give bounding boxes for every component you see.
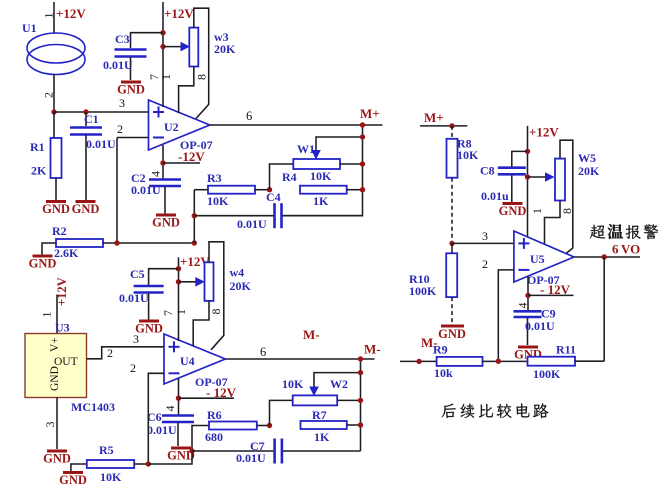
node M+ W1 right xyxy=(360,161,365,166)
node rail-wiper U4 xyxy=(176,279,181,284)
capacitor C7 xyxy=(192,450,274,452)
svg-text:10k: 10k xyxy=(434,366,453,380)
text over-temperature alarm xyxy=(590,225,605,239)
wire M+ vertical xyxy=(284,125,363,216)
capacitor C4 xyxy=(194,215,273,217)
voltage reference U3 MC1403 xyxy=(25,334,87,398)
svg-text:10K: 10K xyxy=(310,169,332,183)
svg-text:GND: GND xyxy=(152,216,180,230)
node rail-C3 xyxy=(160,30,165,35)
svg-text:VO: VO xyxy=(621,242,640,257)
node U1-R1-C1 junction xyxy=(51,109,56,114)
svg-text:GND: GND xyxy=(49,366,61,391)
svg-text:2: 2 xyxy=(130,361,136,375)
resistor R11 xyxy=(528,357,576,366)
wire +12V rail U4 pin 7 xyxy=(178,257,180,341)
capacitor C5 xyxy=(149,269,179,285)
wire U1 pin 1 to +12V xyxy=(53,2,55,34)
node C4 left xyxy=(192,213,197,218)
svg-text:R7: R7 xyxy=(312,408,327,422)
resistor R9 xyxy=(437,357,483,366)
svg-text:GND: GND xyxy=(29,257,57,271)
svg-text:GND: GND xyxy=(499,204,527,218)
svg-text:10K: 10K xyxy=(207,194,229,208)
wire W2 wiper xyxy=(309,387,319,397)
wire U2 pin 2 xyxy=(117,137,149,139)
svg-text:2: 2 xyxy=(42,92,56,98)
ground C2 xyxy=(156,214,176,217)
potentiometer W5 xyxy=(555,159,565,201)
resistor R1 xyxy=(53,112,55,138)
wire W1 wiper xyxy=(311,150,321,160)
wire U4 pin 4 xyxy=(178,379,180,415)
svg-text:0.01U: 0.01U xyxy=(237,217,267,231)
wire U4 pin 2 xyxy=(148,373,164,464)
wire U2 pin 4 xyxy=(162,145,164,179)
node C7 left xyxy=(189,448,194,453)
svg-text:0.01U: 0.01U xyxy=(119,291,149,305)
wire dashed R8 to node xyxy=(451,178,453,244)
potentiometer W1 xyxy=(293,159,340,169)
wire w3 bottom to U2 pin 1 xyxy=(179,67,194,114)
ground R2 xyxy=(33,255,53,258)
resistor R8 xyxy=(447,139,458,178)
wire -12V stub U5 xyxy=(528,294,574,296)
svg-text:W5: W5 xyxy=(578,151,596,165)
wire U5 pin 4 xyxy=(527,277,529,311)
svg-text:2: 2 xyxy=(107,346,113,360)
node R3-R4-W1 xyxy=(267,187,272,192)
svg-text:1K: 1K xyxy=(314,430,330,444)
capacitor C6 xyxy=(162,414,194,417)
node VO xyxy=(602,254,607,259)
svg-text:6: 6 xyxy=(260,345,266,359)
svg-text:C8: C8 xyxy=(480,164,495,178)
node rail-wiper xyxy=(160,44,165,49)
node M- W2 right xyxy=(358,398,363,403)
svg-text:U3: U3 xyxy=(55,321,70,335)
svg-text:M+: M+ xyxy=(360,106,380,121)
node M+ R4 right xyxy=(360,187,365,192)
svg-text:R3: R3 xyxy=(207,171,222,185)
wire R3 to pin2 node xyxy=(193,190,195,243)
svg-text:R1: R1 xyxy=(30,140,45,154)
svg-text:R6: R6 xyxy=(207,408,222,422)
node M+ output xyxy=(360,122,365,127)
node pin4 -12V U5 xyxy=(525,293,530,298)
svg-text:C5: C5 xyxy=(130,267,145,281)
wire +12V rail U5 pin 7 xyxy=(527,126,529,237)
wire +12V rail U2 pin 7 xyxy=(162,2,164,107)
svg-text:1K: 1K xyxy=(313,194,329,208)
node R5-pin2 xyxy=(146,461,151,466)
svg-text:R9: R9 xyxy=(433,343,448,357)
svg-text:20K: 20K xyxy=(214,42,236,56)
ground C8 xyxy=(503,202,523,205)
svg-text:M+: M+ xyxy=(424,110,444,125)
resistor R5 xyxy=(71,464,87,471)
capacitor C3 xyxy=(131,33,164,48)
svg-text:+12V: +12V xyxy=(164,6,194,21)
node R6-R7-W2 xyxy=(267,423,272,428)
svg-text:4: 4 xyxy=(516,303,530,309)
svg-text:8: 8 xyxy=(195,74,209,80)
ground C5 xyxy=(139,320,159,323)
wire to U2 pin 3 xyxy=(54,111,149,113)
node rail-wiper U5 xyxy=(525,174,530,179)
op-amp U2 xyxy=(149,100,210,150)
wire pin2 node to R6 xyxy=(148,426,209,465)
svg-text:MC1403: MC1403 xyxy=(71,400,115,414)
ground C1 xyxy=(76,200,96,203)
node R2-pin2 xyxy=(114,240,119,245)
wire U4 output pin 6 xyxy=(225,358,374,360)
ground C6 xyxy=(171,447,191,450)
svg-text:w4: w4 xyxy=(230,266,245,280)
svg-text:C4: C4 xyxy=(266,190,281,204)
text subsequent comparison circuit xyxy=(442,404,456,418)
wire M- net right xyxy=(400,360,437,362)
wire dashed R10 to GND xyxy=(451,297,453,323)
wire w4 wiper xyxy=(179,281,196,283)
op-amp U4 xyxy=(164,334,225,384)
svg-text:U5: U5 xyxy=(530,252,545,266)
svg-text:8: 8 xyxy=(209,309,223,315)
wire M+ net right xyxy=(420,125,467,127)
svg-text:V+: V+ xyxy=(49,337,61,352)
capacitor C1 xyxy=(85,112,87,126)
wire -12V stub U2 xyxy=(163,162,200,164)
svg-text:GND: GND xyxy=(59,473,87,487)
svg-text:GND: GND xyxy=(72,202,100,216)
wire U2 pin2 vertical xyxy=(116,138,118,244)
svg-text:4: 4 xyxy=(163,406,177,412)
node rail-C8 xyxy=(525,149,530,154)
svg-text:4: 4 xyxy=(149,171,163,177)
potentiometer W2 xyxy=(293,395,338,405)
svg-text:0.01U: 0.01U xyxy=(236,451,266,465)
wire w4 top to U4 pin 8 xyxy=(209,242,224,350)
svg-text:GND: GND xyxy=(135,322,163,336)
wire U3 pin 2 OUT xyxy=(87,347,165,359)
svg-text:0.01U: 0.01U xyxy=(86,137,116,151)
svg-text:0.01U: 0.01U xyxy=(103,58,133,72)
wire w3 top to U2 pin 8 xyxy=(194,8,209,118)
wire dashed M+ to R8 xyxy=(451,126,453,139)
ground R5 xyxy=(63,471,83,474)
svg-text:1: 1 xyxy=(159,74,173,80)
node C1 tap xyxy=(83,109,88,114)
svg-text:3: 3 xyxy=(482,229,488,243)
resistor R10 xyxy=(451,243,453,253)
svg-text:8: 8 xyxy=(560,208,574,214)
node R9-pin2 xyxy=(496,359,501,364)
svg-text:6: 6 xyxy=(246,109,252,123)
svg-text:-12V: -12V xyxy=(178,149,205,164)
capacitor C8 xyxy=(512,151,528,166)
svg-text:+12V: +12V xyxy=(529,125,559,140)
node pin4 -12V xyxy=(160,160,165,165)
node M+ R8 xyxy=(449,123,454,128)
svg-text:U2: U2 xyxy=(164,120,179,134)
svg-text:U4: U4 xyxy=(180,354,195,368)
node M+ wiper xyxy=(360,134,365,139)
svg-text:W2: W2 xyxy=(330,377,348,391)
svg-text:R2: R2 xyxy=(52,224,67,238)
ground R10 xyxy=(441,325,464,328)
wire w4 bottom to U4 pin 1 xyxy=(193,301,209,346)
node pin4 -12V U4 xyxy=(176,396,181,401)
svg-text:GND: GND xyxy=(42,202,70,216)
potentiometer w3 xyxy=(189,28,198,67)
svg-text:1: 1 xyxy=(40,312,54,318)
svg-text:7: 7 xyxy=(161,310,175,316)
svg-text:20K: 20K xyxy=(578,164,600,178)
wire VO down to R11 xyxy=(603,257,605,361)
svg-text:0.01U: 0.01U xyxy=(525,319,555,333)
wire U5 pin 2 xyxy=(498,270,514,361)
wire U3 pin 3 xyxy=(56,398,58,450)
ground R1 xyxy=(46,200,66,203)
wire U5 output pin 6 xyxy=(574,256,640,258)
svg-text:6: 6 xyxy=(612,242,619,257)
svg-text:1: 1 xyxy=(530,208,544,214)
wire U2 output pin 6 xyxy=(210,124,383,126)
svg-text:W1: W1 xyxy=(297,142,315,156)
svg-text:R11: R11 xyxy=(556,343,576,357)
capacitor C9 xyxy=(514,310,542,313)
wire -12V stub U4 xyxy=(179,397,235,399)
ground U3 xyxy=(47,450,67,453)
wire W1 right xyxy=(340,163,363,165)
wire U5 pin 3 xyxy=(452,242,514,244)
node R2-R3 corner xyxy=(192,240,197,245)
wire U3 pin 1 +12V xyxy=(56,295,58,334)
node M- wiper xyxy=(358,370,363,375)
resistor R3 xyxy=(194,189,208,191)
node M- output xyxy=(358,356,363,361)
svg-text:+12V: +12V xyxy=(56,6,86,21)
svg-text:0.01u: 0.01u xyxy=(481,189,509,203)
svg-text:10K: 10K xyxy=(282,377,304,391)
svg-text:GND: GND xyxy=(43,452,71,466)
svg-text:C3: C3 xyxy=(115,32,130,46)
svg-text:3: 3 xyxy=(119,96,125,110)
svg-text:2.6K: 2.6K xyxy=(54,246,79,260)
svg-text:2: 2 xyxy=(482,257,488,271)
svg-text:100K: 100K xyxy=(409,284,437,298)
svg-text:U1: U1 xyxy=(22,21,37,35)
svg-text:R4: R4 xyxy=(282,170,297,184)
sensor U1 xyxy=(27,33,85,63)
wire W2 right xyxy=(337,399,360,401)
ground C3 xyxy=(121,81,141,84)
node rail-C5 xyxy=(176,266,181,271)
svg-text:0.01U: 0.01U xyxy=(131,183,161,197)
svg-text:0.01U: 0.01U xyxy=(147,423,177,437)
svg-text:680: 680 xyxy=(205,430,223,444)
capacitor C2 xyxy=(149,178,181,181)
svg-text:2: 2 xyxy=(117,122,123,136)
node M- R9 xyxy=(416,359,421,364)
svg-text:1: 1 xyxy=(174,309,188,315)
wire M- vertical xyxy=(360,359,362,451)
resistor R6 xyxy=(209,422,257,430)
wire W5 bottom to U5 pin 1 xyxy=(545,201,561,245)
svg-text:20K: 20K xyxy=(230,279,252,293)
svg-text:M-: M- xyxy=(364,342,381,357)
svg-text:100K: 100K xyxy=(533,367,561,381)
svg-text:C1: C1 xyxy=(84,112,99,126)
resistor R2 xyxy=(42,243,56,255)
wire W5 top to U5 pin 8 xyxy=(560,140,573,253)
wire W5 wiper xyxy=(528,176,546,178)
svg-text:GND: GND xyxy=(117,83,145,97)
svg-text:C6: C6 xyxy=(147,410,162,424)
op-amp U5 xyxy=(514,231,574,282)
svg-text:3: 3 xyxy=(43,422,57,428)
svg-text:M-: M- xyxy=(303,327,320,342)
svg-text:1: 1 xyxy=(42,13,56,19)
svg-text:2K: 2K xyxy=(31,164,47,178)
svg-text:+12V: +12V xyxy=(55,277,69,306)
ground C9 xyxy=(518,346,538,349)
wire w3 wiper xyxy=(163,46,181,48)
wire W1 left xyxy=(270,164,294,190)
svg-text:GND: GND xyxy=(438,327,466,341)
node R8-R10-pin3 xyxy=(449,241,454,246)
resistor R4 xyxy=(300,186,347,194)
node M- R7 right xyxy=(358,422,363,427)
svg-text:10K: 10K xyxy=(100,470,122,484)
svg-text:R5: R5 xyxy=(99,443,114,457)
potentiometer w4 xyxy=(205,262,214,301)
resistor R7 xyxy=(301,421,347,429)
wire U1 pin 2 xyxy=(53,74,55,112)
wire W2 left xyxy=(270,400,293,425)
svg-text:10K: 10K xyxy=(457,148,479,162)
